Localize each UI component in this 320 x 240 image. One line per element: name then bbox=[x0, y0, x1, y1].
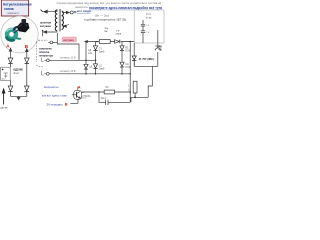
label D5 bbox=[116, 30, 122, 36]
label D4 bbox=[125, 48, 130, 53]
svg-text:А: А bbox=[78, 85, 81, 90]
highlighted label box bbox=[62, 37, 77, 42]
zener VD9 bbox=[132, 43, 136, 66]
diode VD1 bbox=[8, 58, 13, 67]
svg-text:как вот здесь тоже: как вот здесь тоже bbox=[42, 93, 67, 97]
svg-text:схема: схема bbox=[4, 7, 14, 11]
svg-text:кг вв: кг вв bbox=[146, 17, 152, 20]
wire from secondary top bbox=[62, 11, 76, 14]
svg-text:на массу 12 В: на массу 12 В bbox=[60, 70, 76, 73]
diode D3 bbox=[93, 46, 97, 61]
ignition coil box bbox=[134, 10, 164, 43]
svg-text:В: В bbox=[65, 101, 68, 106]
svg-text:НВ: НВ bbox=[159, 47, 163, 49]
pin 1 bbox=[48, 41, 57, 44]
svg-text:генератора: генератора bbox=[39, 54, 53, 57]
svg-text:КД226Б: КД226Б bbox=[14, 68, 24, 72]
capacitor C6 bbox=[141, 31, 150, 43]
right bus vertical bbox=[129, 42, 131, 93]
diode VD8 bbox=[120, 62, 132, 74]
svg-text:датчик: датчик bbox=[0, 107, 8, 110]
top bus wire bbox=[85, 40, 135, 42]
link text bbox=[89, 6, 162, 10]
svg-text:ЗГ 757 (ЗВС): ЗГ 757 (ЗВС) bbox=[139, 58, 154, 61]
black sensor body bbox=[17, 23, 29, 33]
annotation arrow bbox=[0, 89, 8, 110]
wire bottom of bridge bbox=[11, 95, 27, 97]
dark cable wrap bbox=[14, 27, 19, 30]
svg-text:+: + bbox=[102, 100, 104, 104]
wire secondary HV bbox=[157, 30, 159, 46]
wire zener to plug ground bbox=[134, 58, 158, 97]
svg-text:1,: 1, bbox=[128, 85, 130, 88]
wire emitter bbox=[70, 98, 86, 104]
svg-text:я добавил конденсатор 1БГ 2Ш: я добавил конденсатор 1БГ 2Ш bbox=[84, 18, 127, 22]
wire pin2 to network bbox=[49, 57, 96, 61]
diode D4 bbox=[120, 46, 124, 62]
CDI unit enclosure (dashed) bbox=[36, 40, 47, 66]
svg-text:посмотрите здесь написал подро: посмотрите здесь написал подробно всё ту… bbox=[89, 6, 162, 10]
svg-text:СД: СД bbox=[89, 67, 93, 69]
diode VD2 bbox=[25, 58, 30, 86]
unit text bbox=[39, 48, 53, 58]
svg-text:Схема переделана под мопед, во: Схема переделана под мопед, вот что вышл… bbox=[57, 1, 162, 5]
svg-text:Актуализованная: Актуализованная bbox=[3, 3, 32, 7]
svg-text:смлв: смлв bbox=[116, 33, 122, 36]
transistor Q1 bbox=[72, 90, 91, 99]
pin 2 bbox=[42, 58, 50, 62]
wire bbox=[157, 52, 159, 66]
wire bbox=[10, 80, 12, 85]
photo of pickup coil unit bbox=[1, 16, 38, 53]
label R3 bbox=[104, 27, 109, 33]
svg-text:катушка: катушка bbox=[40, 25, 51, 28]
svg-text:ДХ: ДХ bbox=[2, 79, 5, 81]
ground bbox=[17, 96, 20, 100]
svg-text:СД: СД bbox=[125, 64, 129, 66]
junction dots bus2 bbox=[85, 60, 96, 62]
title note box bbox=[1, 0, 31, 16]
label штатная катушка bbox=[40, 22, 69, 28]
diode VD4 bbox=[25, 86, 30, 96]
wire to coil primary bbox=[41, 10, 58, 14]
svg-text:[вариант]: [вариант] bbox=[8, 11, 19, 15]
diode D5 bbox=[115, 40, 120, 44]
wire bbox=[26, 55, 28, 58]
diode VD3 bbox=[8, 86, 13, 96]
wire loop from coil to bus bbox=[57, 33, 79, 60]
svg-text:Непонятно: Непонятно bbox=[44, 85, 59, 89]
wire vertical x122 bbox=[121, 42, 123, 46]
wire from primary bottom bbox=[42, 30, 57, 36]
svg-text:НОЖ: НОЖ bbox=[125, 67, 131, 69]
zener VD6 bbox=[84, 60, 93, 74]
pin 3 bbox=[42, 71, 50, 75]
transformer T1 (ignition coil) bbox=[55, 9, 63, 31]
spark plug bbox=[155, 46, 162, 51]
resistor R9 bbox=[104, 90, 114, 94]
svg-text:чВ: чВ bbox=[159, 49, 162, 51]
wire collector bbox=[78, 87, 84, 93]
svg-text:масса: масса bbox=[79, 98, 86, 100]
svg-text:вот сюда: вот сюда bbox=[77, 9, 91, 13]
svg-text:пом: пом bbox=[88, 53, 93, 55]
wire vertical x95.5 bbox=[95, 42, 97, 46]
wire vertical x86 bbox=[85, 42, 87, 61]
node B (left) bbox=[25, 44, 29, 55]
svg-text:1мкФ: 1мкФ bbox=[99, 50, 105, 53]
value label bbox=[14, 68, 24, 75]
label D3 bbox=[88, 48, 105, 55]
svg-text:СД: СД bbox=[88, 50, 92, 52]
svg-text:11,0: 11,0 bbox=[146, 12, 151, 16]
svg-text:смотрите: смотрите bbox=[75, 5, 88, 9]
capacitor C7 electrolytic bbox=[99, 92, 130, 105]
svg-text:1мкФ: 1мкФ bbox=[99, 67, 105, 70]
svg-text:катушка: катушка bbox=[63, 39, 74, 42]
capacitor C5 bbox=[141, 20, 150, 31]
node A (bottom) bbox=[78, 85, 81, 90]
zener VD7 bbox=[93, 60, 104, 74]
node A (left) bbox=[6, 44, 11, 55]
wire pin3 to bottom bus bbox=[49, 70, 130, 75]
svg-text:4 шт: 4 шт bbox=[14, 71, 20, 75]
lower bus bbox=[82, 91, 131, 93]
wire bbox=[10, 55, 12, 58]
teal coiled cable ring bbox=[7, 30, 16, 39]
svg-text:2б передать: 2б передать bbox=[47, 102, 64, 106]
svg-text:на массу 12 В: на массу 12 В bbox=[60, 57, 76, 60]
resistor R10 bbox=[128, 81, 148, 102]
resistor R3 bbox=[99, 40, 110, 44]
sensor block box bbox=[1, 67, 11, 80]
